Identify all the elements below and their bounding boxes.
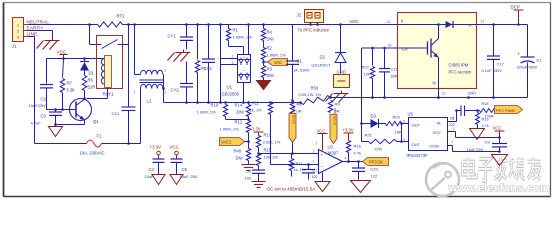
ic U5 driver (409, 118, 448, 151)
svg-text:DNI: DNI (267, 73, 274, 78)
node c1 rail (291, 99, 294, 102)
resistor R21 (362, 141, 369, 143)
svg-text:3: 3 (232, 61, 234, 65)
svg-text:10uF/25V: 10uF/25V (29, 103, 47, 108)
capacitor C8 (460, 106, 462, 117)
svg-text:R18: R18 (482, 102, 489, 106)
resistor R4 (263, 25, 265, 29)
ic U4A PFC module (398, 13, 477, 89)
diode D2 (335, 52, 346, 54)
inductor L1 (141, 70, 163, 74)
svg-text:1: 1 (313, 160, 315, 164)
capacitor CX1 (122, 106, 136, 108)
shunt resistor R50 (299, 101, 302, 104)
svg-text:C9: C9 (485, 140, 491, 145)
svg-text:1: 1 (165, 69, 167, 73)
svg-text:VMC: VMC (350, 19, 359, 24)
wire cy top (186, 25, 188, 37)
watermark logo circle (426, 163, 459, 196)
svg-text:51R: 51R (88, 85, 96, 90)
capacitor C3 (55, 110, 57, 112)
svg-text:X: X (401, 19, 404, 24)
svg-text:+3.3V: +3.3V (343, 128, 354, 133)
wire gate column (361, 48, 363, 142)
svg-text:J1: J1 (12, 44, 17, 50)
svg-text:R21: R21 (365, 133, 373, 138)
resistor R17 (291, 154, 293, 159)
svg-text:2: 2 (452, 140, 454, 144)
resistor R10 (225, 103, 227, 105)
svg-text:3: 3 (134, 91, 136, 95)
svg-text:47R: 47R (375, 147, 382, 152)
svg-text:VCC: VCC (433, 130, 442, 135)
capacitor E1 (527, 25, 529, 57)
svg-text:DNI: DNI (391, 74, 398, 79)
resistor R40 (246, 149, 250, 161)
transistor Q1 (70, 99, 92, 121)
svg-text:R20: R20 (393, 115, 401, 120)
svg-text:D1: D1 (89, 71, 95, 76)
svg-text:DNI: DNI (237, 110, 244, 115)
svg-text:U5: U5 (408, 112, 414, 117)
svg-text:4: 4 (134, 69, 136, 73)
wire vcc pin (448, 131, 456, 133)
capacitor CY2 (180, 83, 193, 85)
diode D1 (84, 59, 86, 62)
svg-text:R50: R50 (311, 86, 319, 91)
svg-text:C6: C6 (246, 169, 252, 174)
svg-text:R4: R4 (267, 30, 273, 35)
node vcc dots (62, 57, 65, 60)
svg-text:22: 22 (387, 20, 391, 24)
ground r19 (470, 129, 485, 140)
svg-text:1k, 1%: 1k, 1% (250, 108, 263, 113)
earth ground r40 (242, 164, 256, 166)
svg-text:C4: C4 (149, 167, 155, 172)
svg-text:R40: R40 (234, 149, 242, 154)
wire d2 drop (339, 23, 342, 26)
svg-text:4: 4 (345, 157, 347, 161)
svg-text:Q1: Q1 (93, 119, 99, 124)
resistor R12 (248, 117, 250, 121)
svg-text:R22: R22 (362, 65, 370, 70)
resistor R14 (248, 103, 250, 105)
svg-text:CY1: CY1 (168, 34, 177, 39)
resistor R22 (372, 48, 374, 66)
svg-text:102: 102 (312, 175, 318, 179)
wire bus in box (398, 24, 528, 26)
svg-text:R6: R6 (88, 78, 94, 83)
relay RLY1 (97, 36, 123, 89)
svg-text:C20: C20 (371, 167, 379, 172)
resistor R9 (328, 101, 332, 113)
svg-text:C2: C2 (41, 97, 47, 102)
svg-text:U3: U3 (328, 145, 334, 150)
svg-text:1.00M, 1%: 1.00M, 1% (220, 127, 240, 132)
svg-text:C1: C1 (297, 59, 303, 64)
wire com pin (448, 145, 453, 147)
ground c20 (351, 181, 371, 193)
capacitor C1 (292, 25, 294, 61)
watermark text 电子发烧友 (463, 158, 541, 181)
svg-text:+3.3V: +3.3V (150, 145, 162, 150)
svg-text:2: 2 (316, 142, 318, 146)
svg-text:R17: R17 (296, 162, 303, 166)
svg-text:IRS44273F: IRS44273F (407, 153, 429, 158)
diode D-pfc (446, 21, 453, 28)
wire gx (362, 47, 398, 49)
earth ground cy (176, 50, 191, 53)
wire relay bypass left (89, 25, 91, 45)
earth ground d2 (334, 91, 349, 94)
bridge rectifier U1 (248, 25, 250, 55)
svg-text:VAC: VAC (274, 60, 282, 65)
sheet border frame (4, 2, 551, 4)
resistor R1 (228, 25, 230, 29)
connector J1 (13, 18, 24, 42)
svg-text:R3: R3 (267, 67, 273, 72)
fuse F1 (87, 140, 102, 147)
capacitor CY1 (180, 36, 193, 38)
svg-text:PFC Shunt: PFC Shunt (292, 107, 296, 124)
svg-text:U4A: U4A (468, 91, 477, 96)
svg-text:GBJ2506: GBJ2506 (222, 92, 240, 97)
svg-text:R16: R16 (354, 144, 362, 149)
svg-text:PFCGK: PFCGK (369, 159, 383, 164)
net label PFCGK (363, 158, 389, 166)
connector J2 (305, 10, 324, 23)
svg-text:10R: 10R (395, 130, 402, 135)
earth ground c6 (252, 181, 266, 183)
igbt Q-pfc (398, 47, 428, 49)
diode D3 (360, 122, 363, 125)
wire earth (29, 30, 53, 32)
resistor R5 (197, 25, 199, 60)
svg-text:GX: GX (402, 47, 408, 52)
svg-text:1: 1 (17, 24, 19, 28)
svg-text:CX1: CX1 (112, 111, 121, 116)
node rail dots (88, 23, 91, 26)
svg-text:N: N (433, 81, 436, 86)
resistor R11 (269, 101, 272, 104)
wire in pin (448, 121, 457, 123)
svg-text:0.1uF, 630V: 0.1uF, 630V (482, 69, 503, 73)
svg-text:3: 3 (313, 150, 315, 154)
resistor R2 (263, 41, 265, 48)
svg-text:21: 21 (481, 20, 485, 24)
wire opamp out (343, 161, 363, 163)
svg-text:−: − (321, 165, 324, 170)
wire choke right (162, 74, 165, 76)
svg-text:CY2: CY2 (171, 88, 180, 93)
svg-text:+: + (321, 153, 324, 158)
svg-text:+3.3V: +3.3V (250, 127, 261, 132)
ground com (492, 155, 508, 166)
ground c5 (170, 175, 183, 185)
svg-text:1.00M, 1%: 1.00M, 1% (197, 110, 217, 115)
svg-text:VCC: VCC (493, 126, 502, 131)
svg-text:102: 102 (245, 176, 252, 181)
svg-text:US1JDICT: US1JDICT (312, 63, 332, 68)
svg-text:DNI: DNI (267, 37, 274, 42)
resistor R6 (82, 76, 86, 91)
wire r7 drop (63, 59, 64, 78)
wire minus input (271, 164, 319, 166)
svg-text:C7: C7 (313, 169, 318, 173)
svg-text:VAC2: VAC2 (221, 139, 232, 144)
capacitor C5 (171, 158, 183, 160)
svg-text:OC set to 465mΩ/15.5A: OC set to 465mΩ/15.5A (267, 187, 317, 192)
resistor R8 (290, 102, 294, 114)
capacitor C17 (493, 25, 495, 56)
resistor R16 (346, 141, 350, 153)
capacitor C2 (40, 84, 53, 86)
ground opamp (322, 173, 324, 182)
svg-text:5: 5 (403, 120, 405, 124)
svg-text:VCC: VCC (317, 129, 326, 134)
svg-text:4.7uF: 4.7uF (31, 121, 42, 126)
svg-text:E1: E1 (537, 58, 543, 63)
svg-text:10A, 230VAC: 10A, 230VAC (80, 151, 105, 156)
capacitor C10 (384, 48, 386, 69)
net flag PFC Shunt left (289, 114, 296, 143)
svg-text:0.05,1W, 1%: 0.05,1W, 1% (299, 92, 322, 97)
ground r3 (263, 78, 265, 81)
svg-text:R7: R7 (67, 81, 73, 86)
net flag PFC Shunt right (330, 115, 337, 144)
svg-text:CI005 IPM: CI005 IPM (449, 63, 469, 68)
svg-text:R10: R10 (211, 103, 219, 108)
svg-text:5.3k: 5.3k (67, 88, 76, 93)
svg-text:DNI: DNI (236, 156, 243, 161)
svg-text:L1: L1 (147, 99, 153, 104)
wire line down (29, 36, 35, 38)
svg-text:C17: C17 (497, 62, 505, 67)
wire neutral rail (29, 24, 98, 26)
svg-text:OUT: OUT (412, 123, 421, 128)
svg-text:P: P (469, 23, 472, 28)
svg-text:D2: D2 (320, 55, 326, 60)
svg-text:4: 4 (403, 138, 405, 142)
svg-text:To PFC inductor: To PFC inductor (298, 28, 330, 33)
svg-text:0R: 0R (297, 109, 302, 114)
resistor R13 (256, 136, 260, 148)
svg-text:24: 24 (388, 44, 392, 48)
wire bridge ac (220, 25, 222, 103)
svg-text:3.92k, 1%: 3.92k, 1% (263, 140, 281, 145)
svg-text:PFC section: PFC section (449, 70, 472, 75)
svg-text:R1: R1 (233, 28, 239, 33)
resistor R15 (256, 154, 260, 166)
wire line bottom (35, 143, 87, 145)
svg-text:VCC: VCC (170, 145, 179, 150)
earth ground J1 (45, 38, 60, 41)
net label VAC (262, 61, 265, 64)
svg-text:2: 2 (17, 30, 19, 34)
svg-text:J2: J2 (297, 13, 302, 18)
svg-text:VCC: VCC (57, 50, 67, 55)
svg-text:www.elecfans.com: www.elecfans.com (448, 183, 550, 195)
svg-text:C8: C8 (450, 117, 455, 121)
resistor R7 (60, 79, 64, 93)
capacitor C6 (252, 169, 265, 171)
wire fuse up (140, 89, 142, 144)
svg-text:23: 23 (442, 92, 446, 96)
ground q1 (49, 127, 63, 137)
wire out link (401, 124, 403, 142)
svg-text:+: + (518, 52, 521, 57)
wire relay bypass right (128, 25, 130, 107)
svg-text:12k: 12k (364, 72, 370, 77)
wire plus input (259, 153, 319, 155)
svg-text:R2: R2 (267, 46, 273, 51)
svg-text:3: 3 (17, 36, 19, 40)
capacitor C20 (358, 162, 360, 168)
svg-text:1.00M, 1%: 1.00M, 1% (267, 53, 287, 58)
svg-text:PFC PWM: PFC PWM (496, 108, 515, 113)
wire coil bottom (107, 88, 109, 99)
svg-text:CX2: CX2 (204, 66, 213, 71)
svg-text:1uF, 630V: 1uF, 630V (292, 68, 310, 73)
svg-text:122: 122 (371, 174, 378, 179)
svg-text:R11: R11 (252, 101, 260, 106)
svg-text:2: 2 (165, 91, 167, 95)
resistor R20 (386, 121, 402, 125)
wire coil top (47, 58, 105, 60)
svg-text:D3: D3 (371, 114, 377, 119)
svg-text:4.7k: 4.7k (482, 124, 489, 128)
svg-text:2: 2 (232, 55, 234, 59)
svg-text:R19: R19 (482, 118, 489, 122)
wire rail neg right (331, 97, 528, 99)
svg-text:RT1: RT1 (117, 14, 126, 19)
wire cy mid (186, 62, 188, 84)
svg-text:330uF, 450V: 330uF, 450V (517, 66, 538, 70)
svg-text:R14: R14 (235, 103, 243, 108)
svg-text:1.00M, 1%: 1.00M, 1% (233, 35, 253, 40)
net label PFC PWM (495, 106, 523, 114)
capacitor C9 (499, 138, 501, 144)
svg-text:RLY1: RLY1 (103, 92, 115, 97)
svg-text:R12: R12 (235, 120, 243, 125)
svg-text:4.7k: 4.7k (354, 151, 362, 156)
svg-text:GND: GND (337, 70, 346, 75)
capacitor CX2 (208, 25, 210, 59)
thermistor RT1 (98, 22, 123, 27)
wire base (47, 109, 70, 111)
capacitor C7 (308, 165, 310, 170)
svg-text:R9: R9 (335, 102, 341, 107)
resistor R19 (477, 111, 479, 113)
net label VAC2 (247, 140, 250, 143)
svg-text:U1: U1 (227, 85, 233, 90)
wire c2 drop (46, 59, 48, 84)
resistor R3 (263, 60, 265, 66)
resistor R18 (480, 109, 496, 113)
wire choke feed (134, 25, 136, 75)
capacitor C4 (153, 158, 165, 160)
svg-text:IN: IN (437, 121, 441, 126)
svg-text:PFC Shunt: PFC Shunt (333, 108, 337, 125)
svg-text:F1: F1 (97, 134, 103, 139)
wire emitter (84, 120, 86, 125)
svg-text:3: 3 (453, 127, 455, 131)
ground c4 (152, 175, 165, 185)
svg-text:COM: COM (430, 144, 439, 149)
wire rail neg left (164, 102, 301, 104)
svg-text:C3: C3 (41, 114, 47, 119)
pin N (438, 89, 440, 98)
svg-text:OUT: OUT (412, 142, 421, 147)
svg-text:222: 222 (449, 123, 455, 127)
svg-text:DCP: DCP (511, 5, 520, 10)
svg-text:C5: C5 (182, 167, 188, 172)
